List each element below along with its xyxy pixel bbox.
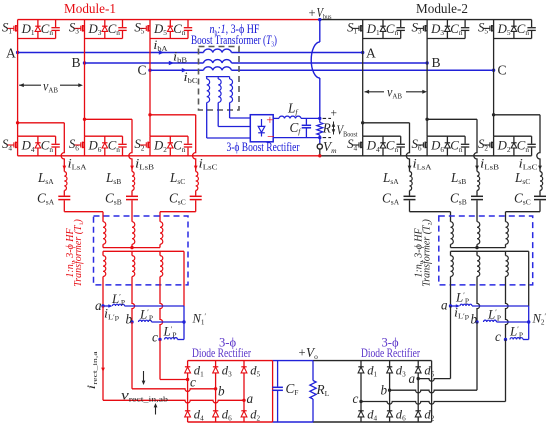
svg-text:Transformer (T2​): Transformer (T2​) xyxy=(422,219,434,287)
svg-text:b: b xyxy=(381,383,388,398)
svg-text:c: c xyxy=(190,375,196,390)
svg-text:A: A xyxy=(366,46,376,61)
svg-text:R: R xyxy=(322,121,331,136)
svg-text:3-ϕ Boost Rectifier: 3-ϕ Boost Rectifier xyxy=(227,140,301,154)
svg-text:+: + xyxy=(266,112,273,127)
svg-text:N2​′​: N2​′​ xyxy=(532,312,547,327)
svg-text:Transformer (T1​): Transformer (T1​) xyxy=(73,219,85,287)
svg-text:Diode Rectifier: Diode Rectifier xyxy=(361,346,421,360)
svg-text:A: A xyxy=(6,46,16,61)
svg-text:Module-2: Module-2 xyxy=(416,1,468,16)
svg-text:c: c xyxy=(353,391,359,406)
svg-text:a: a xyxy=(247,391,254,406)
svg-text:a: a xyxy=(409,371,416,386)
svg-text:B: B xyxy=(432,55,441,70)
svg-text:N1​′​: N1​′​ xyxy=(192,312,207,327)
svg-text:+: + xyxy=(331,108,338,120)
svg-text:a: a xyxy=(441,297,448,312)
svg-text:a: a xyxy=(95,298,102,313)
svg-text:c: c xyxy=(495,329,501,344)
svg-text:+: + xyxy=(299,346,306,360)
svg-text:Module-1: Module-1 xyxy=(64,1,116,16)
svg-text:Diode Rectifier: Diode Rectifier xyxy=(192,346,252,360)
svg-text:c: c xyxy=(152,330,158,345)
svg-text:B: B xyxy=(72,55,81,70)
svg-text:C: C xyxy=(498,62,507,77)
svg-text:b: b xyxy=(218,384,225,399)
svg-text:C: C xyxy=(138,62,147,77)
